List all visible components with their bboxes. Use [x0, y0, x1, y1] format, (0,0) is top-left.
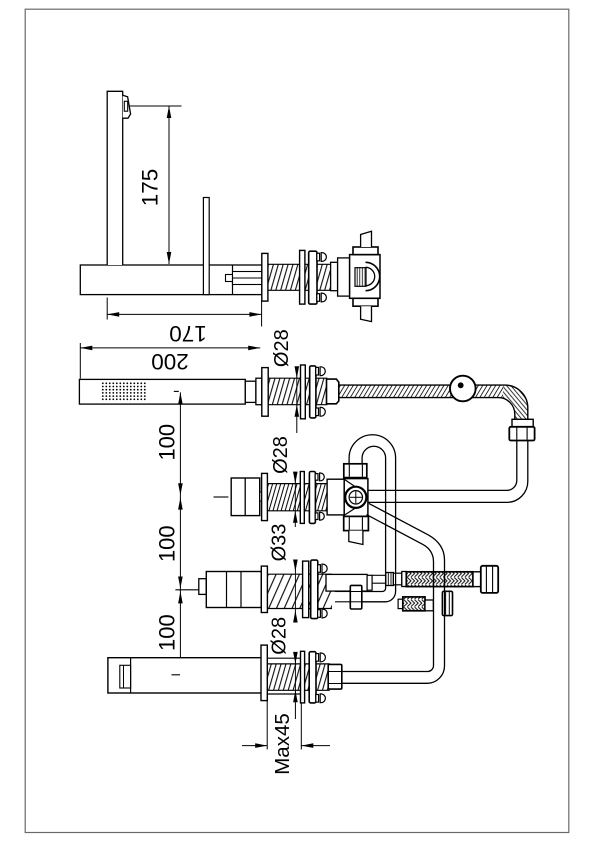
- hose nut at shank: [327, 379, 339, 404]
- hose1 right hex nut: [481, 566, 498, 593]
- handle neck: [260, 492, 262, 501]
- hose end ferrule: [512, 419, 533, 427]
- mounting screw: [315, 474, 318, 481]
- deck flange (handshower): [262, 368, 268, 417]
- mounting screw: [317, 253, 320, 261]
- pipe lines crossing braided hose 1: [433, 572, 435, 587]
- dimension Ø28 (unit3 shank): [294, 473, 296, 484]
- svg-text:Ø28: Ø28: [270, 436, 292, 474]
- dimension Max45 arrows: [242, 745, 267, 747]
- extension line riser: [106, 298, 108, 320]
- svg-text:Ø33: Ø33: [269, 524, 291, 562]
- threaded shank (unit5): [267, 664, 330, 690]
- extension line handshower end: [79, 343, 81, 379]
- spout horizontal body: [80, 265, 262, 295]
- dimension Ø28 (handshower shank): [296, 368, 298, 379]
- svg-text:Ø28: Ø28: [271, 329, 293, 367]
- threaded shank (spout): [268, 264, 331, 290]
- handshower neck: [245, 381, 256, 402]
- deck flange (unit3): [262, 473, 268, 520]
- tail connector: [367, 575, 372, 590]
- valve screw circle: [345, 487, 366, 508]
- holder end bracket detail: [120, 665, 131, 688]
- dimension 100 (3): [179, 590, 181, 675]
- spout supply clamp collar: [338, 258, 350, 296]
- thin supply pipe to hose1: [372, 574, 386, 576]
- holder body (unit5): [108, 658, 262, 693]
- svg-text:100: 100: [154, 525, 179, 562]
- centerline tick unit2: [174, 390, 179, 392]
- clamp top pipe stub: [361, 231, 372, 247]
- handshower collar: [256, 378, 262, 405]
- deck flange (unit5): [261, 645, 267, 701]
- spout supply clamp body: [350, 255, 380, 299]
- mounting plate (thick): [309, 472, 315, 524]
- dimension 100 (2): [179, 497, 181, 590]
- valve main block: [344, 479, 368, 517]
- svg-text:200: 200: [151, 349, 189, 374]
- handshower spray face dots: [102, 382, 104, 384]
- diagonal pipe from valve to down-pipe: [342, 503, 445, 683]
- mounting screw: [318, 610, 321, 618]
- extension line flange: [261, 300, 263, 327]
- centerline tick unit3: [214, 496, 229, 498]
- handshower flexible hose: [339, 385, 503, 398]
- svg-text:175: 175: [138, 169, 163, 207]
- dimension 170 line: [107, 313, 261, 315]
- hose end hex nut: [509, 427, 534, 441]
- svg-text:170: 170: [169, 321, 207, 346]
- mounting screw: [315, 513, 318, 520]
- down pipe line through nut: [444, 591, 446, 615]
- mounting plate (thick): [311, 560, 318, 619]
- clamp horseshoe bracket: [366, 262, 380, 290]
- dimension 175 line: [168, 106, 170, 264]
- centerline tick unit4 (long): [175, 589, 203, 591]
- centerline tick unit5: [172, 674, 181, 676]
- unit4 rear stub lines: [335, 591, 350, 593]
- mounting plate (thick): [309, 652, 316, 703]
- mounting washer plate (thin): [300, 472, 304, 524]
- mounting washer plate (thin): [300, 250, 305, 304]
- braided hose 1: [406, 572, 473, 587]
- handle stub (unit4): [199, 579, 207, 595]
- hose2 right ferrule: [425, 600, 433, 611]
- clamp bottom hex nut: [353, 298, 378, 306]
- U pipe from valve top to unit4 rear nut: [349, 435, 396, 602]
- mounting boss (unit5): [267, 657, 300, 659]
- centerline tick unit4: [230, 590, 237, 592]
- svg-text:Max45: Max45: [271, 713, 294, 775]
- hose1 right ferrule: [473, 572, 481, 587]
- mounting screw: [318, 565, 321, 573]
- dimension 100 (1): [179, 392, 181, 496]
- extension line plate (Max45): [300, 703, 302, 750]
- braided hose 2: [403, 597, 425, 611]
- mounting screw: [317, 294, 320, 302]
- spout vertical riser: [107, 91, 123, 265]
- unit4 rear port nut: [350, 585, 362, 609]
- handshower tube body: [79, 379, 245, 404]
- svg-text:100: 100: [154, 424, 179, 461]
- mounting screw: [316, 408, 319, 416]
- mounting washer plate (thin): [303, 561, 309, 618]
- valve top hex nut: [344, 464, 367, 478]
- mounting screw: [316, 695, 319, 703]
- svg-text:Ø28: Ø28: [268, 617, 290, 655]
- handle body (unit4): [206, 572, 261, 608]
- braided hose 2 left ferrule: [398, 599, 403, 608]
- valve bottom pipe stub: [349, 531, 363, 545]
- mounting plate (thick): [309, 251, 317, 304]
- threaded shank (handshower): [268, 378, 327, 405]
- dimension Ø28 (unit5): [294, 655, 296, 664]
- threaded shank (unit3): [267, 484, 327, 511]
- handle body (unit3): [231, 478, 260, 516]
- svg-text:100: 100: [154, 614, 179, 651]
- valve tail tube (unit4): [326, 574, 367, 591]
- hose1 left adapter: [393, 573, 401, 585]
- dimension 200 line: [80, 347, 260, 349]
- valve bottom hex nut: [344, 516, 369, 530]
- hose2 right hex nut: [442, 591, 452, 615]
- unit5 rear nut: [328, 664, 342, 689]
- mounting screw: [316, 367, 319, 375]
- dimension Ø33 (unit4): [294, 562, 296, 572]
- extension line flange (Max45): [266, 701, 268, 750]
- mounting plate (thick): [310, 366, 316, 418]
- hose swivel ball: [450, 376, 476, 402]
- clamp hatched tail piece: [355, 268, 366, 287]
- mounting washer plate (thin): [301, 365, 306, 419]
- deck flange (unit4): [261, 566, 267, 612]
- spout cartridge detail: [226, 275, 233, 282]
- spout body divider: [232, 265, 234, 295]
- clamp bottom pipe stub: [361, 306, 372, 321]
- spout supply clamp small block: [331, 262, 338, 290]
- mounting washer plate (thin): [301, 651, 305, 703]
- valve left block: [327, 479, 344, 515]
- hose1 left nut: [386, 573, 394, 586]
- clamp top hex nut: [353, 247, 378, 255]
- spout outlet detail: [123, 95, 131, 118]
- dimension 175 extension line: [129, 105, 182, 107]
- deck flange (spout): [262, 253, 268, 301]
- spout lever shaft: [203, 198, 209, 295]
- threaded shank (unit4, Ø33): [267, 574, 332, 608]
- mounting screw: [316, 654, 319, 662]
- pipe from hose nut down to valve (elbow): [368, 441, 528, 503]
- hose1 left ferrule: [402, 572, 407, 587]
